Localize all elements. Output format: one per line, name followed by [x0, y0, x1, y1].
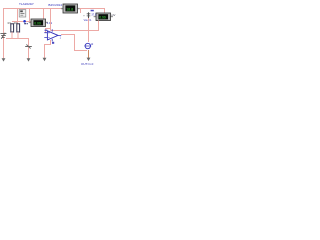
resistor R1: [11, 24, 14, 32]
node left rail end arrow: [2, 58, 6, 61]
label node net: [24, 23, 26, 24]
svg-text:12: 12: [91, 43, 94, 46]
thermometer RT1: [83, 12, 90, 18]
wire U1 left pin to rail: [17, 9, 19, 25]
svg-text:TLA2021P: TLA2021P: [19, 2, 34, 6]
label RT1 unit: [91, 10, 94, 12]
svg-text:mV: mV: [111, 13, 115, 17]
svg-text:0.00: 0.00: [34, 22, 41, 26]
wire R1 bottom: [11, 32, 13, 39]
svg-text:B2V/2014: B2V/2014: [48, 3, 62, 7]
transistor U1 sensor body: [19, 10, 26, 17]
node probe cross marker: [25, 44, 32, 48]
wire +5V top rail: [4, 9, 63, 60]
voltmeter VM1: [29, 19, 48, 27]
wire probe tail: [88, 50, 90, 58]
node junction dot: [23, 20, 26, 23]
voltmeter VM2: [94, 13, 113, 21]
wire voltmeter VM1 top feed: [43, 9, 45, 20]
svg-text:+: +: [83, 15, 85, 18]
svg-text:1: 1: [60, 37, 62, 40]
svg-text:OUT=1.0: OUT=1.0: [81, 62, 94, 66]
svg-text:1.49: 1.49: [47, 21, 53, 25]
resistor R2: [17, 24, 20, 32]
svg-text:Vout=1: Vout=1: [84, 19, 92, 22]
wire op-amp input feed: [46, 29, 51, 33]
node output column arrow: [27, 58, 31, 61]
wire op-amp supply drop: [50, 9, 52, 31]
node vss arrow: [43, 58, 47, 61]
wire U1 right pin drop: [30, 9, 32, 23]
wire R2 bottom: [17, 32, 19, 39]
wire RT1 stub: [80, 9, 82, 14]
wire op-amp output: [61, 35, 87, 51]
svg-text:0.99: 0.99: [99, 16, 106, 20]
wire node row: [12, 21, 31, 23]
wire AM1 output run: [80, 9, 105, 14]
wire op-amp vss: [45, 40, 51, 59]
battery BT1 probe: [84, 43, 91, 48]
wire probe column: [88, 18, 90, 42]
wire ground row: [6, 39, 29, 60]
node probe arrow: [87, 58, 91, 61]
wire output bus row: [51, 21, 99, 31]
op-amp U2: [44, 29, 61, 41]
label U2 name: [52, 42, 54, 44]
ammeter AM1: [61, 4, 80, 13]
svg-text:37.0: 37.0: [91, 14, 96, 17]
svg-text:18.8: 18.8: [66, 7, 73, 11]
ground: [0, 33, 6, 39]
